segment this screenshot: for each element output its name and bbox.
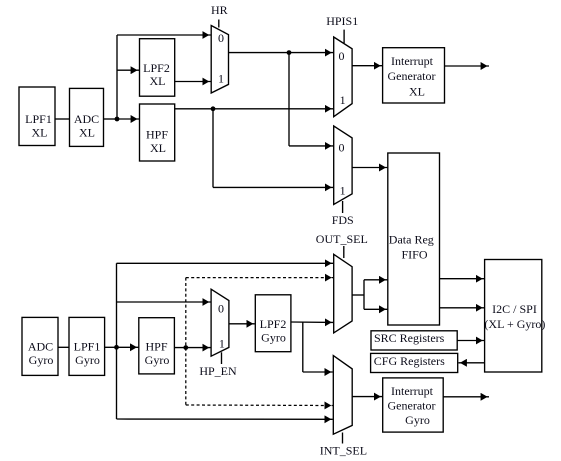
svg-text:XL: XL <box>150 74 166 88</box>
svg-text:Gyro: Gyro <box>145 353 170 367</box>
svg-text:INT_SEL: INT_SEL <box>320 444 367 458</box>
svg-text:HPF: HPF <box>145 340 167 354</box>
svg-text:LPF1: LPF1 <box>25 112 52 126</box>
svg-text:XL: XL <box>150 141 166 155</box>
svg-text:0: 0 <box>218 302 224 316</box>
svg-text:0: 0 <box>339 140 345 154</box>
svg-text:LPF2: LPF2 <box>260 317 287 331</box>
svg-text:ADC: ADC <box>74 112 99 126</box>
svg-text:LPF2: LPF2 <box>143 61 170 75</box>
svg-text:HP_EN: HP_EN <box>199 364 237 378</box>
svg-text:XL: XL <box>79 125 95 139</box>
svg-text:I2C / SPI: I2C / SPI <box>492 302 537 316</box>
svg-text:ADC: ADC <box>28 340 53 354</box>
svg-text:Gyro: Gyro <box>261 331 286 345</box>
svg-text:Generator: Generator <box>388 399 436 413</box>
svg-text:0: 0 <box>339 49 345 63</box>
svg-text:SRC Registers: SRC Registers <box>374 331 445 345</box>
svg-text:XL: XL <box>409 84 425 98</box>
svg-text:1: 1 <box>218 71 224 85</box>
svg-text:Gyro: Gyro <box>75 353 100 367</box>
svg-text:Interrupt: Interrupt <box>391 384 434 398</box>
svg-text:OUT_SEL: OUT_SEL <box>316 232 368 246</box>
svg-text:CFG Registers: CFG Registers <box>374 354 445 368</box>
svg-text:Gyro: Gyro <box>29 353 54 367</box>
svg-text:HPF: HPF <box>146 128 168 142</box>
svg-text:Interrupt: Interrupt <box>391 54 434 68</box>
svg-text:XL: XL <box>32 125 48 139</box>
svg-text:0: 0 <box>218 31 224 45</box>
svg-text:Generator: Generator <box>388 69 436 83</box>
svg-text:Gyro: Gyro <box>405 413 430 427</box>
svg-text:1: 1 <box>219 337 225 351</box>
svg-text:HPIS1: HPIS1 <box>326 14 358 28</box>
svg-text:HR: HR <box>211 3 228 17</box>
svg-text:1: 1 <box>340 93 346 107</box>
svg-text:LPF1: LPF1 <box>74 340 101 354</box>
svg-text:FIFO: FIFO <box>401 248 427 262</box>
svg-text:1: 1 <box>340 183 346 197</box>
svg-text:Data Reg: Data Reg <box>389 233 434 247</box>
svg-text:(XL + Gyro): (XL + Gyro) <box>484 317 545 331</box>
svg-text:FDS: FDS <box>332 213 354 227</box>
